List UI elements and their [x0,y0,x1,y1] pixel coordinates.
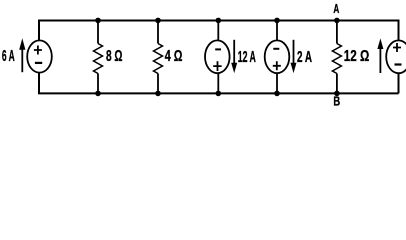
svg-text:12 A: 12 A [238,49,256,66]
svg-text:12 Ω: 12 Ω [344,48,370,65]
svg-text:A: A [333,1,339,16]
arrow for 12A source (down) [231,40,237,73]
wire 12-ohm branch stubs [336,21,338,94]
svg-text:4 Ω: 4 Ω [165,48,183,65]
wire right branch (right source branch) [398,20,400,94]
arrow for right source (up) [377,38,383,73]
svg-text:8 Ω: 8 Ω [106,48,123,65]
junction bottom of 2A branch [274,91,280,97]
junction bottom of 4-ohm branch [155,91,161,97]
current source 12A (circle) [205,40,230,73]
junction node A [334,18,340,24]
wire left branch (6A source branch) [38,20,40,94]
wire 2A source branch [276,21,278,94]
svg-text:2 A: 2 A [297,49,312,66]
value label 4 ohm [165,48,183,65]
wire 8-ohm branch stubs [97,21,99,94]
junction top of 4-ohm branch [155,18,161,24]
resistor 4-ohm (zigzag) [154,44,163,74]
arrow for 6A source (up) [19,38,25,72]
junction top of 2A branch [274,18,280,24]
value label 6 A [2,48,15,65]
junction top of 12A branch [216,18,222,24]
wire 4-ohm branch stubs [157,21,159,94]
junction bottom of 12A branch [216,91,222,97]
voltage source right (circle) [386,40,406,73]
junction node B [334,91,340,97]
svg-text:6 A: 6 A [2,48,15,65]
svg-text:B: B [333,95,340,109]
current source 6A (circle) [27,40,52,72]
node label A [333,1,339,16]
arrow for 2A source (down) [291,40,297,73]
value label 2 A [297,49,312,66]
value label 8 ohm [106,48,123,65]
resistor 12-ohm (zigzag) [332,44,341,74]
wire bottom bus [38,92,399,94]
value label 12 ohm [344,48,370,65]
wire 12A source branch [217,21,219,94]
wire top bus [38,20,399,22]
node label B [333,95,340,109]
junction top of 8-ohm branch [95,18,101,24]
junction bottom of 8-ohm branch [95,91,101,97]
resistor 8-ohm (zigzag) [94,44,103,74]
current source 2A (circle) [265,40,290,73]
value label 12 A [238,49,256,66]
